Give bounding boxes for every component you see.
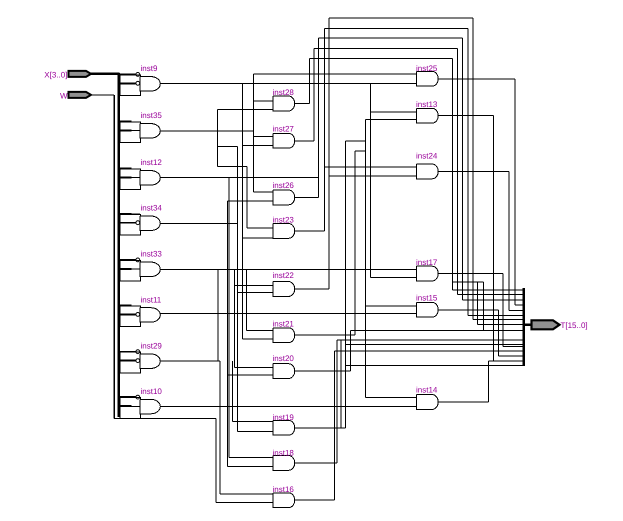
- svg-text:X[3..0]: X[3..0]: [44, 70, 67, 79]
- wire net inst18-out (bus row 9): [295, 340, 524, 463]
- output pin T[15..0]: [532, 320, 588, 330]
- wire net inst15-out (bus row 13): [438, 310, 524, 356]
- svg-text:inst28: inst28: [273, 88, 295, 97]
- wire net inst33-out: [160, 119, 416, 397]
- wire net inst9-out: [160, 84, 416, 340]
- and-gate inst12: [119, 158, 163, 189]
- wire net inst24-out (bus row 4): [438, 171, 524, 310]
- and-gate inst14: [416, 386, 438, 410]
- and-gate inst20: [273, 354, 295, 379]
- and-gate inst28: [273, 88, 295, 111]
- svg-text:inst19: inst19: [273, 413, 295, 422]
- bus wire X[3..0] to rail: [90, 73, 120, 417]
- wire net inst28-out (loop L5, bus row 0): [295, 59, 524, 290]
- wire net inst20-out (bus row 9): [295, 331, 524, 371]
- wire net inst12-out: [160, 178, 524, 458]
- svg-text:inst15: inst15: [416, 294, 438, 303]
- svg-text:inst13: inst13: [416, 100, 438, 109]
- svg-text:inst25: inst25: [416, 64, 438, 73]
- and-gate inst26: [273, 181, 295, 205]
- wire inst24 input feeds: [324, 167, 416, 176]
- wire net inst14-out (bus row 14): [438, 361, 524, 402]
- wire net inst23-out (loop L2, bus row 5): [295, 28, 524, 315]
- wire net inst34-out: [160, 201, 273, 466]
- svg-text:T[15..0]: T[15..0]: [561, 321, 588, 330]
- svg-text:inst29: inst29: [141, 342, 163, 351]
- svg-text:W: W: [60, 92, 68, 101]
- wire net inst22-out (loop L1, bus row 6): [295, 18, 524, 320]
- wire net inst11-out: [160, 313, 416, 315]
- wire net inst10-out: [160, 406, 416, 408]
- and-gate inst25: [416, 64, 438, 86]
- and-gate inst13: [416, 100, 438, 123]
- and-gate inst16: [273, 485, 295, 508]
- and-gate inst35: [119, 111, 163, 142]
- svg-text:inst34: inst34: [141, 204, 163, 213]
- svg-text:inst22: inst22: [273, 271, 295, 280]
- svg-text:inst17: inst17: [416, 258, 438, 267]
- wire net inst27-out (loop L4, bus row 1): [295, 48, 524, 294]
- and-gate inst10 (inverted inputs): [119, 387, 163, 418]
- input pin W: [69, 92, 92, 98]
- bus wire to output pin: [524, 324, 532, 326]
- and-gate inst19: [273, 413, 295, 435]
- wire net inst16-out (bus row 12): [295, 351, 524, 500]
- and-gate inst23: [273, 216, 295, 239]
- and-gate inst15: [416, 294, 438, 318]
- and-gate inst22: [273, 271, 295, 296]
- and-gate inst29 (inverted inputs): [119, 342, 163, 373]
- and-gate inst24: [416, 152, 438, 179]
- svg-text:inst33: inst33: [141, 250, 163, 259]
- svg-text:inst20: inst20: [273, 354, 295, 363]
- wire net inst19-out (bus rows 10,15): [295, 141, 524, 428]
- svg-text:inst9: inst9: [141, 64, 158, 73]
- svg-text:inst23: inst23: [273, 216, 295, 225]
- svg-text:inst27: inst27: [273, 125, 295, 134]
- and-gate inst27: [273, 125, 295, 149]
- and-gate inst9 (inverted inputs): [119, 64, 161, 95]
- svg-text:inst16: inst16: [273, 485, 295, 494]
- wire net inst25-out (bus row 3): [438, 79, 524, 305]
- bus wire T[15..0] vertical: [523, 288, 525, 366]
- and-gate inst34 (inverted inputs): [119, 204, 163, 235]
- wire net inst13-out (joins row 14): [438, 116, 493, 361]
- svg-text:inst11: inst11: [141, 295, 162, 304]
- and-gate inst11 (inverted inputs): [119, 295, 162, 326]
- wire net inst26-out (loop L3, bus row 2): [295, 38, 524, 300]
- wire net inst29-out: [160, 269, 273, 494]
- svg-text:inst21: inst21: [273, 320, 295, 329]
- svg-text:inst10: inst10: [141, 387, 163, 396]
- svg-text:inst35: inst35: [141, 111, 163, 120]
- svg-text:inst18: inst18: [273, 449, 295, 458]
- svg-text:inst24: inst24: [416, 152, 438, 161]
- and-gate inst33 (inverted inputs): [119, 250, 163, 281]
- wire net inst17-out (bus row 11): [438, 274, 524, 347]
- input pin X[3..0]: [69, 71, 92, 77]
- svg-text:inst26: inst26: [273, 181, 295, 190]
- and-gate inst17: [416, 258, 438, 281]
- wire net inst21-out (joins vertical): [295, 151, 365, 335]
- wire W to rail: [90, 95, 273, 503]
- svg-text:inst14: inst14: [416, 386, 438, 395]
- and-gate inst18: [273, 449, 295, 471]
- wire net inst35-out: [160, 74, 416, 431]
- svg-text:inst12: inst12: [141, 158, 163, 167]
- and-gate inst21: [273, 320, 295, 343]
